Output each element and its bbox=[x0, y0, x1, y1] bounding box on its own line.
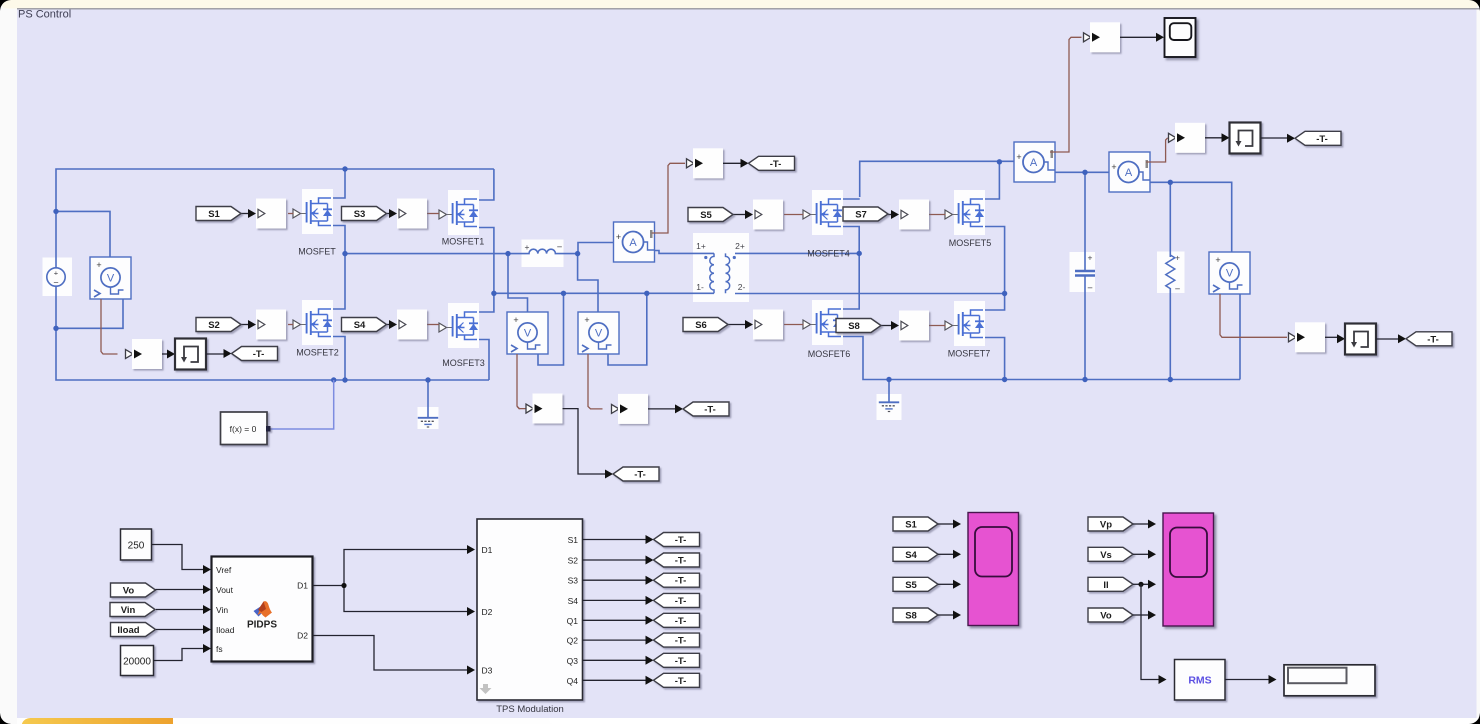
arrowhead S2 goto bbox=[646, 556, 654, 565]
wire solver config to bottom bus bbox=[270, 380, 334, 429]
constant block 250 bbox=[121, 529, 152, 560]
svg-text:S1: S1 bbox=[568, 535, 579, 545]
arrowhead Iload bbox=[203, 625, 211, 634]
RMS block bbox=[1175, 660, 1226, 701]
rate transition RT1 bbox=[175, 339, 206, 370]
wire gate signal to MOSFET7 bbox=[929, 325, 946, 327]
wire gate signal to MOSFET5 bbox=[928, 214, 946, 216]
from tag Iload in bbox=[111, 623, 156, 637]
wire MOSFET4 source / MOSFET6 drain leg bbox=[829, 227, 860, 310]
junction bottom bus / leg A bbox=[342, 377, 347, 382]
wire Vp to scope3 bbox=[1133, 523, 1148, 525]
svg-text:V: V bbox=[1226, 268, 1234, 280]
from tag S8 scope feed bbox=[893, 608, 938, 622]
svg-text:RMS: RMS bbox=[1188, 675, 1211, 687]
port triangle A2 chain bbox=[1084, 33, 1092, 42]
from tag S4 scope feed bbox=[893, 547, 938, 561]
svg-text:S8: S8 bbox=[905, 611, 917, 622]
port triangle VM1b chain bbox=[526, 404, 534, 413]
goto tag T Q2 bbox=[654, 633, 700, 647]
wire D1 branch to TPS D2 bbox=[344, 586, 467, 612]
wire gate signal to MOSFET6 bbox=[784, 324, 804, 326]
converter block S6 gate conv bbox=[753, 310, 783, 340]
transformer T1 bbox=[696, 241, 745, 293]
arrowhead scope3 Vo bbox=[1148, 611, 1156, 620]
progress bar (orange) bbox=[22, 718, 173, 724]
wire node to ammeter A1 input bbox=[578, 243, 614, 254]
canvas top border bbox=[17, 8, 1480, 10]
svg-text:+: + bbox=[1016, 152, 1021, 162]
arrowhead VM2 conv bbox=[620, 404, 628, 413]
svg-text:-T-: -T- bbox=[675, 556, 687, 567]
junction capacitor tap bbox=[1082, 170, 1087, 175]
wire MOSFET2 drain to mid bus bbox=[319, 254, 346, 309]
voltmeter VM2 bbox=[578, 312, 619, 354]
transistor MOSFET5 bbox=[945, 190, 985, 235]
arrowhead S5 conv bbox=[745, 210, 753, 219]
wire 250 to Vref bbox=[152, 545, 204, 570]
svg-text:Q4: Q4 bbox=[567, 676, 579, 686]
junction inductor/ammeter node bbox=[575, 251, 580, 256]
svg-text:Vp: Vp bbox=[1100, 520, 1112, 531]
from tag S2 bbox=[196, 318, 241, 332]
arrowhead TPS D2 bbox=[467, 607, 475, 616]
wire 20000 to fs bbox=[154, 649, 204, 661]
arrowhead A3 conv bbox=[1177, 133, 1185, 142]
junction VM1b return bbox=[561, 291, 566, 296]
arrowhead VM1 RT bbox=[167, 350, 175, 359]
wire Il to scope3 bbox=[1133, 583, 1148, 585]
svg-text:Vo: Vo bbox=[1100, 611, 1112, 622]
svg-text:MOSFET7: MOSFET7 bbox=[948, 349, 991, 359]
goto tag T Q4 bbox=[654, 673, 700, 687]
converter block VM1 conv bbox=[132, 339, 162, 369]
svg-text:S4: S4 bbox=[354, 320, 366, 331]
arrowhead S4 conv bbox=[389, 320, 397, 329]
goto tag T Vs bbox=[683, 402, 729, 416]
svg-text:MOSFET5: MOSFET5 bbox=[949, 238, 992, 248]
wire mid bus to inductor bbox=[345, 253, 524, 255]
junction resistor tap bbox=[1168, 180, 1173, 185]
converter block S3 gate conv bbox=[397, 199, 427, 229]
junction source/VM1 node bbox=[53, 209, 58, 214]
svg-text:D2: D2 bbox=[482, 607, 493, 617]
svg-text:-T-: -T- bbox=[675, 576, 687, 587]
port triangle A1 chain bbox=[687, 159, 695, 168]
arrowhead S1 conv bbox=[248, 209, 256, 218]
wire ammeter A1 output to transformer 1+ bbox=[654, 251, 714, 254]
arrowhead fs bbox=[203, 644, 211, 653]
svg-text:D1: D1 bbox=[297, 581, 308, 591]
svg-text:Iload: Iload bbox=[216, 625, 235, 635]
svg-text:A: A bbox=[629, 237, 637, 249]
from tag Il scope feed bbox=[1088, 577, 1133, 591]
goto tag T S3 bbox=[654, 573, 700, 587]
voltage source backing bbox=[43, 258, 73, 297]
svg-text:1-: 1- bbox=[696, 282, 704, 292]
wire VM3 measurement out bbox=[1220, 294, 1287, 337]
from tag Vo in bbox=[111, 583, 156, 597]
wire resistor R1 bottom lead bbox=[1169, 288, 1171, 380]
wire RT3 to goto bbox=[1376, 338, 1398, 340]
svg-text:+: + bbox=[616, 232, 621, 242]
arrowhead display in bbox=[1269, 675, 1277, 684]
wire resistor R1 top lead bbox=[1169, 182, 1171, 257]
DC voltage source V1 bbox=[47, 268, 65, 288]
resistor R1 bbox=[1166, 253, 1181, 296]
arrowhead VM1b conv bbox=[535, 404, 543, 413]
capacitor C1 backing bbox=[1070, 252, 1096, 292]
from tag Vp scope feed bbox=[1088, 517, 1133, 531]
goto tag T Vp bbox=[613, 467, 659, 481]
transistor MOSFET3 bbox=[439, 303, 479, 348]
wire Il to RMS bbox=[1141, 584, 1159, 679]
wire A3 measurement out bbox=[1146, 138, 1168, 162]
wire RT1 to goto bbox=[206, 353, 224, 355]
wire S1 to scope2 bbox=[938, 523, 953, 525]
svg-text:-T-: -T- bbox=[770, 159, 782, 170]
junction top bus / MOSFET5 drain bbox=[997, 159, 1002, 164]
svg-text:TPS Modulation: TPS Modulation bbox=[496, 704, 564, 715]
svg-text:S2: S2 bbox=[208, 320, 220, 331]
wire ammeter A3 out to voltmeter VM3 bbox=[1150, 182, 1232, 252]
junction VM1b tap bbox=[505, 251, 510, 256]
goto tag T Il bbox=[1295, 131, 1341, 145]
wire S2 tag to conv bbox=[241, 324, 248, 326]
goto tag T Vdc bbox=[232, 347, 278, 361]
wire voltmeter VM1 return bbox=[56, 296, 123, 328]
wire ground G2 stem bbox=[888, 380, 890, 403]
svg-text:Q3: Q3 bbox=[567, 656, 579, 666]
svg-text:MOSFET1: MOSFET1 bbox=[442, 237, 485, 247]
wire mid bus tap to voltmeter VM1b top bbox=[508, 254, 528, 312]
svg-text:PS Control: PS Control bbox=[18, 9, 71, 21]
from tag S5 bbox=[688, 208, 733, 222]
wire TPS Q1 out bbox=[583, 619, 646, 621]
wire S5 tag to conv bbox=[733, 214, 745, 216]
converter block S8 gate conv bbox=[899, 311, 929, 341]
goto tag T Q3 bbox=[654, 653, 700, 667]
arrowhead TPS D3 bbox=[467, 666, 475, 675]
svg-text:S5: S5 bbox=[700, 210, 712, 221]
wire S7 tag to conv bbox=[888, 214, 891, 216]
transistor MOSFET4 bbox=[803, 190, 843, 235]
port triangle A3 chain bbox=[1169, 133, 1177, 142]
transformer T1 backing bbox=[693, 233, 749, 302]
svg-text:A: A bbox=[1125, 167, 1133, 179]
svg-text:Vref: Vref bbox=[216, 565, 232, 575]
wire S3 tag to conv bbox=[387, 213, 389, 215]
svg-text:Vout: Vout bbox=[216, 585, 234, 595]
arrowhead RMS in bbox=[1159, 675, 1167, 684]
bottom white strip bbox=[17, 713, 1477, 724]
transistor MOSFET bbox=[293, 189, 333, 234]
arrowhead S2 conv bbox=[248, 320, 256, 329]
wire TPS Q4 out bbox=[583, 679, 646, 681]
svg-text:S4: S4 bbox=[568, 596, 579, 606]
arrowhead scope3 Vs bbox=[1148, 550, 1156, 559]
subsystem block TPS Modulation bbox=[477, 519, 583, 700]
from tag Vs scope feed bbox=[1088, 547, 1133, 561]
svg-text:S2: S2 bbox=[568, 556, 579, 566]
junction mid bus / leg A bbox=[342, 251, 347, 256]
svg-text:Vin: Vin bbox=[121, 605, 136, 616]
arrowhead A1 goto bbox=[741, 159, 749, 168]
transistor MOSFET7 bbox=[945, 301, 985, 346]
wire MOSFET2 source to bottom bus bbox=[319, 337, 346, 381]
wire VM1b conv to goto bbox=[563, 409, 606, 474]
wire lower bus primary to transformer 1- bbox=[494, 292, 714, 294]
from tag S6 bbox=[683, 318, 728, 332]
transistor MOSFET1 bbox=[439, 190, 479, 235]
svg-text:+: + bbox=[584, 315, 589, 325]
converter block A3 conv bbox=[1175, 123, 1205, 153]
from tag Vin in bbox=[110, 603, 155, 617]
arrowhead Vref bbox=[203, 565, 211, 574]
wire voltmeter VM1b return loop bbox=[538, 293, 564, 365]
svg-text:A: A bbox=[1030, 157, 1038, 169]
arrowhead VM3 RT bbox=[1337, 334, 1345, 343]
svg-text:Vs: Vs bbox=[1100, 550, 1112, 561]
arrowhead Q3 goto bbox=[646, 656, 654, 665]
arrowhead A3 RT bbox=[1222, 133, 1230, 142]
wire TPS S1 out bbox=[583, 539, 646, 541]
arrowhead VM1b goto bbox=[605, 470, 613, 479]
from tag Vo scope feed bbox=[1088, 608, 1133, 622]
scope block Scope2 (magenta) bbox=[1163, 513, 1214, 626]
wire TPS S3 out bbox=[583, 579, 646, 581]
svg-text:-T-: -T- bbox=[253, 349, 265, 360]
wire TPS S4 out bbox=[583, 599, 646, 601]
from tag S7 bbox=[843, 207, 888, 221]
svg-text:S3: S3 bbox=[568, 576, 579, 586]
svg-text:V: V bbox=[107, 273, 115, 285]
constant block 20000 bbox=[121, 646, 154, 676]
ammeter A2 bbox=[1014, 142, 1055, 182]
wire left rail / bottom bus primary bbox=[56, 286, 489, 380]
ground G2 (electrical reference) bbox=[879, 402, 899, 411]
wire capacitor C1 top lead bbox=[1084, 172, 1086, 271]
wire MOSFET5 source to 2- bus bbox=[971, 227, 1005, 294]
wire MOSFET7 source to bottom bus bbox=[971, 338, 1005, 380]
wire gate signal to MOSFET bbox=[288, 213, 294, 215]
wire MOSFET5 drain to top bus bbox=[971, 162, 1000, 199]
wire D1 to TPS D1 bbox=[313, 550, 468, 586]
arrowhead scope2 S4 bbox=[953, 550, 961, 559]
wire transformer 2- bus bbox=[735, 293, 1005, 295]
arrowhead Vout bbox=[203, 585, 211, 594]
svg-text:S7: S7 bbox=[855, 210, 867, 221]
svg-text:Vo: Vo bbox=[123, 586, 135, 597]
arrowhead scope3 Vp bbox=[1148, 520, 1156, 529]
svg-text:PIDPS: PIDPS bbox=[247, 620, 277, 631]
svg-text:250: 250 bbox=[128, 541, 145, 552]
junction bottom bus / MOSFET7 bbox=[1002, 377, 1007, 382]
svg-text:1+: 1+ bbox=[696, 241, 706, 251]
wire gate signal to MOSFET3 bbox=[427, 324, 439, 326]
wire ammeter A2 out to ammeter A3 in bbox=[1055, 171, 1109, 173]
wire VM1b measurement out2 bbox=[517, 407, 526, 409]
goto tag T S4 bbox=[654, 593, 700, 607]
arrowhead Vin bbox=[203, 605, 211, 614]
svg-text:Q1: Q1 bbox=[567, 616, 579, 626]
svg-text:S1: S1 bbox=[905, 520, 917, 531]
junction VM1 return node bbox=[53, 326, 58, 331]
wire top bus primary bbox=[56, 169, 494, 268]
scope block Scope1 (magenta) bbox=[968, 513, 1019, 626]
wire VM2 conv to goto bbox=[648, 408, 675, 410]
svg-text:S6: S6 bbox=[695, 320, 707, 331]
wire gate signal to MOSFET2 bbox=[288, 324, 294, 326]
wire S5 to scope2 bbox=[938, 583, 953, 585]
arrowhead VM2 goto bbox=[675, 404, 683, 413]
wire gate signal to MOSFET4 bbox=[784, 214, 804, 216]
svg-text:+: + bbox=[96, 260, 101, 270]
goto tag T Ip bbox=[749, 156, 795, 170]
svg-text:MOSFET6: MOSFET6 bbox=[808, 349, 851, 359]
svg-text:2+: 2+ bbox=[735, 241, 745, 251]
wire MOSFET7 drain to 2- bus bbox=[971, 294, 1005, 311]
arrowhead VM1 conv bbox=[134, 350, 142, 359]
junction top bus / leg A bbox=[342, 166, 347, 171]
arrowhead S8 conv bbox=[891, 321, 899, 330]
svg-text:D3: D3 bbox=[482, 666, 493, 676]
svg-text:+: + bbox=[513, 315, 518, 325]
wire MOSFET1 drain to top bus corner bbox=[465, 169, 494, 200]
wire VM1 conv to RT bbox=[162, 353, 168, 355]
wire RT2 to goto bbox=[1261, 137, 1288, 139]
svg-text:−: − bbox=[557, 242, 563, 253]
converter block A1 conv bbox=[693, 148, 723, 178]
wire S4 tag to conv bbox=[387, 324, 389, 326]
wire node to voltmeter VM2 top bbox=[578, 254, 598, 312]
rate transition RT3 bbox=[1345, 324, 1376, 355]
top cream strip bbox=[0, 0, 1480, 11]
voltmeter VM1b bbox=[507, 312, 548, 354]
wire A1 conv to goto bbox=[723, 162, 741, 164]
wire S4 to scope2 bbox=[938, 553, 953, 555]
svg-text:−: − bbox=[1087, 283, 1093, 294]
from tag S5 scope feed bbox=[893, 577, 938, 591]
wire voltmeter VM2 return loop bbox=[608, 293, 647, 365]
wire TPS S2 out bbox=[583, 559, 646, 561]
capacitor C1 bbox=[1075, 253, 1095, 295]
svg-text:20000: 20000 bbox=[123, 657, 151, 668]
ammeter A3 bbox=[1109, 152, 1150, 192]
svg-text:+: + bbox=[1111, 162, 1116, 172]
wire MOSFET source to mid bus bbox=[319, 226, 346, 254]
arrowhead scope2 S5 bbox=[953, 580, 961, 589]
arrowhead A3 goto bbox=[1287, 134, 1295, 143]
converter block VM1b conv bbox=[533, 394, 563, 424]
inductor L1 bbox=[524, 242, 563, 254]
wire S8 to scope2 bbox=[938, 614, 953, 616]
junction VM2 return bbox=[644, 291, 649, 296]
arrowhead S4 goto bbox=[646, 596, 654, 605]
arrowhead S6 conv bbox=[745, 320, 753, 329]
inductor L1 backing bbox=[522, 240, 564, 268]
wire VM2 measurement out bbox=[588, 354, 603, 409]
wire RMS to display bbox=[1225, 679, 1269, 681]
transistor MOSFET2 bbox=[293, 300, 333, 345]
svg-text:Iload: Iload bbox=[117, 625, 139, 636]
wire Vin to Vin port bbox=[156, 609, 204, 611]
svg-text:S5: S5 bbox=[905, 580, 917, 591]
junction resistor bottom bbox=[1168, 377, 1173, 382]
converter block A2 conv bbox=[1090, 22, 1120, 52]
converter block S4 gate conv bbox=[397, 310, 427, 340]
wire inductor to node bbox=[561, 253, 578, 255]
arrowhead A1 conv bbox=[695, 159, 703, 168]
svg-text:MOSFET4: MOSFET4 bbox=[807, 249, 850, 259]
arrowhead S3 conv bbox=[389, 209, 397, 218]
from tag S1 scope feed bbox=[893, 517, 938, 531]
arrowhead Q4 goto bbox=[646, 676, 654, 685]
arrowhead S3 goto bbox=[646, 576, 654, 585]
port triangle VM1 chain bbox=[126, 350, 134, 359]
wire Vo to Vout bbox=[156, 589, 204, 591]
svg-text:−: − bbox=[1175, 284, 1181, 295]
voltmeter VM3 bbox=[1209, 252, 1250, 294]
wire S6 tag to conv bbox=[728, 324, 745, 326]
svg-text:-T-: -T- bbox=[634, 470, 646, 481]
svg-text:Vin: Vin bbox=[216, 605, 228, 615]
rate transition RT2 bbox=[1230, 123, 1261, 154]
junction Il branch bbox=[1138, 582, 1143, 587]
junction 2- bus / leg D bbox=[1002, 291, 1007, 296]
svg-text:V: V bbox=[524, 328, 532, 340]
svg-text:S4: S4 bbox=[905, 550, 917, 561]
svg-text:-T-: -T- bbox=[1427, 334, 1439, 345]
svg-text:+: + bbox=[54, 269, 59, 278]
converter block S1 gate conv bbox=[256, 199, 286, 229]
junction capacitor bottom bbox=[1082, 377, 1087, 382]
svg-text:-T-: -T- bbox=[675, 596, 687, 607]
ground G1 (electrical reference) bbox=[418, 418, 438, 427]
wire S8 tag to conv bbox=[881, 325, 891, 327]
wire VM1 measurement out bbox=[101, 299, 118, 354]
svg-text:+: + bbox=[1088, 253, 1093, 263]
arrowhead VM1 goto bbox=[224, 349, 232, 358]
junction solver config tap bbox=[331, 377, 336, 382]
ground G1 backing bbox=[418, 407, 439, 429]
svg-text:f(x) = 0: f(x) = 0 bbox=[230, 424, 257, 434]
MATLAB function block PIDPS bbox=[212, 557, 313, 662]
wire transformer 2+ bus bbox=[735, 252, 859, 254]
converter block S2 gate conv bbox=[256, 310, 286, 340]
wire A3 conv to RT bbox=[1205, 137, 1222, 139]
resistor R1 backing bbox=[1157, 252, 1185, 294]
from tag S8 bbox=[836, 319, 881, 333]
svg-text:-T-: -T- bbox=[675, 676, 687, 687]
svg-text:Il: Il bbox=[1103, 580, 1108, 591]
svg-text:-T-: -T- bbox=[675, 535, 687, 546]
transistor MOSFET6 bbox=[803, 300, 843, 345]
svg-text:MOSFET3: MOSFET3 bbox=[442, 358, 485, 368]
svg-text:MOSFET: MOSFET bbox=[298, 247, 336, 257]
voltmeter VM1 bbox=[90, 257, 131, 299]
goto tag T S2 bbox=[654, 553, 700, 567]
svg-text:2-: 2- bbox=[738, 282, 746, 292]
wire D2 to TPS D3 bbox=[313, 636, 468, 671]
wire Iload to Iload port bbox=[156, 629, 204, 631]
goto tag T S1 bbox=[654, 533, 700, 547]
wire Vo to scope3 bbox=[1133, 614, 1148, 616]
wire MOSFET3 source to bottom bus bbox=[465, 340, 490, 381]
wire VM3 conv to RT bbox=[1325, 336, 1337, 338]
svg-text:-T-: -T- bbox=[675, 636, 687, 647]
svg-text:+: + bbox=[1175, 253, 1180, 263]
